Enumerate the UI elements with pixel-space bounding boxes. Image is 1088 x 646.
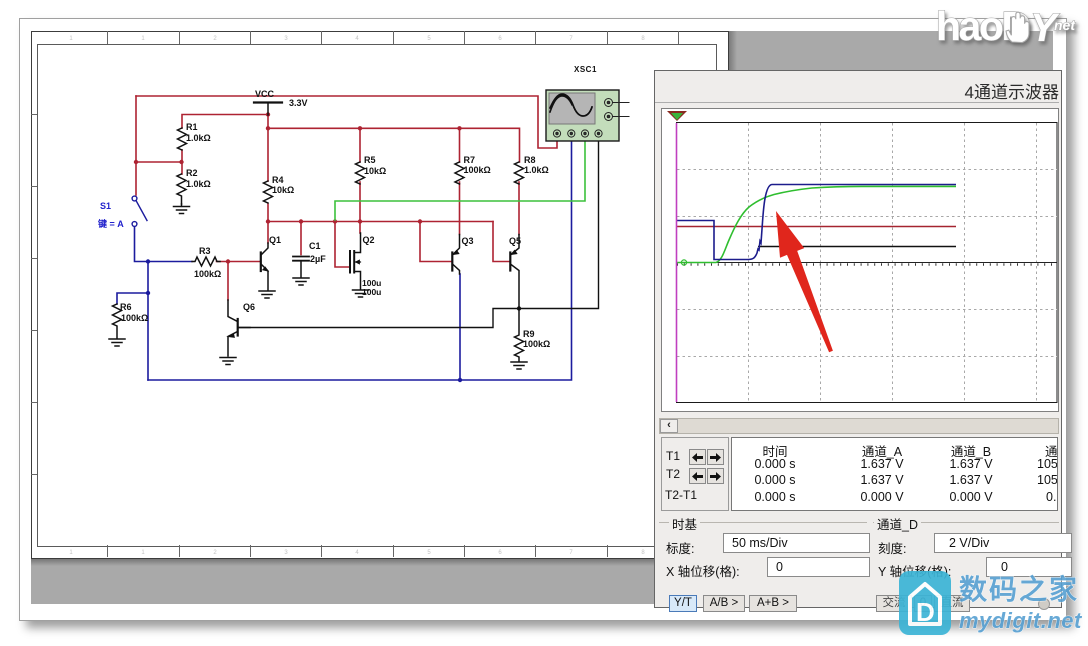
svg-text:R5: R5 [364, 155, 376, 165]
ground under Q6 [220, 358, 236, 365]
svg-text:R2: R2 [186, 168, 198, 178]
component labels [120, 89, 550, 349]
trigger cursor (purple) [676, 123, 678, 402]
transistor Q2 (NMOS) [350, 233, 361, 289]
transistor Q3 (PNP) [452, 235, 459, 275]
resistor R2 [177, 174, 186, 204]
wire rail to R1/R2 junction [136, 161, 182, 163]
wire R5 bottom / Q2 drain [359, 182, 361, 233]
svg-text:R9: R9 [523, 329, 535, 339]
right band ticks [715, 115, 727, 475]
resistor R7 [455, 162, 464, 184]
trace start marker [681, 260, 686, 265]
group 通道_D [874, 514, 921, 533]
svg-text:C1: C1 [309, 241, 321, 251]
svg-text:R7: R7 [464, 155, 476, 165]
resistor R8 [515, 162, 524, 184]
wire R5 top [359, 128, 361, 162]
wire R7 bottom / Q3 emitter [459, 182, 461, 235]
wire Q3 base drop [420, 222, 452, 262]
grid dashed verticals [749, 123, 1037, 402]
wire Q5 base drop [493, 222, 510, 262]
svg-text:VCC: VCC [255, 89, 275, 99]
svg-text:键 = A: 键 = A [97, 218, 124, 229]
top band ticks [108, 31, 679, 44]
capacitor C1 [293, 257, 309, 278]
wire VCC stem to R4 [267, 115, 269, 181]
svg-text:100kΩ: 100kΩ [523, 339, 550, 349]
schematic sheet frame + ruler bands [31, 31, 729, 559]
resistor R9 [515, 309, 524, 362]
wire VCC top rail to scope A [136, 96, 557, 148]
gray workspace below page [31, 564, 1053, 604]
svg-text:Q2: Q2 [363, 235, 375, 245]
trace channel C (blue step) [677, 185, 956, 260]
gray workspace right of page [729, 31, 1053, 604]
wire Q3 collector to bus [459, 274, 461, 380]
svg-text:100kΩ: 100kΩ [194, 269, 221, 279]
wire R8 bottom / Q5 emitter [518, 182, 520, 235]
wire black scope D to Q6 base net [238, 137, 599, 328]
red annotation arrow [754, 195, 854, 365]
trace channel D (black) [758, 246, 956, 248]
ground under C1 [293, 278, 309, 285]
trace channel A (green exponential) [677, 186, 956, 262]
time axis with ticks [677, 262, 1057, 264]
wire R1 bottom to junction to R2 top [181, 150, 183, 174]
svg-text:Q6: Q6 [243, 302, 255, 312]
svg-text:数码之家: 数码之家 [959, 573, 1079, 605]
ground under R9 [511, 362, 527, 369]
svg-text:mydigit.net: mydigit.net [959, 608, 1083, 633]
T cursor readout box [661, 437, 729, 511]
page shadow on gray: bottom [31, 558, 736, 566]
trace channel B (red) [677, 226, 956, 228]
resistor R4 [264, 181, 273, 203]
oscilloscope instrument icon XSC1 [546, 65, 629, 141]
readout table [731, 437, 1058, 511]
svg-text:S1: S1 [100, 201, 111, 211]
resistor R1 [178, 128, 187, 150]
svg-text:10kΩ: 10kΩ [364, 166, 386, 176]
svg-text:3.3V: 3.3V [289, 98, 308, 108]
grid box [677, 123, 1058, 403]
wire main output bus [268, 221, 493, 223]
watermark mydigit (bottom right) [893, 566, 1088, 641]
components: black symbols [109, 103, 527, 370]
svg-text:D: D [916, 597, 935, 627]
wire R4 bottom / Q1 collector [267, 204, 269, 243]
bottom band ticks [108, 545, 679, 557]
resistor R5 [356, 162, 365, 184]
svg-text:R4: R4 [272, 175, 284, 185]
transistor Q1 (NPN) [261, 243, 268, 290]
wire green scope C to gate node [335, 137, 585, 220]
grid dashed horizontals [677, 170, 1057, 357]
svg-text:R1: R1 [186, 122, 198, 132]
svg-text:1.0kΩ: 1.0kΩ [186, 179, 211, 189]
resistor R3 (horizontal) [192, 257, 220, 266]
wire R7 top [459, 128, 461, 162]
trigger handle [667, 111, 687, 121]
ground under Q1 [259, 291, 275, 298]
junction dots (blue) [146, 259, 462, 382]
wire VCC right rail [268, 128, 520, 162]
label Q2 W/L 100u 100u [362, 278, 381, 297]
junction dots (red) [134, 112, 462, 263]
svg-text:Q3: Q3 [462, 236, 474, 246]
svg-text:Q5: Q5 [509, 236, 521, 246]
svg-text:2µF: 2µF [310, 254, 326, 264]
ground under Q2 [353, 290, 369, 297]
bottom controls [655, 512, 1061, 611]
label S1 / key=A (blue) [97, 201, 124, 229]
watermark haoDIY.net (top right) [900, 0, 1088, 62]
svg-text:XSC1: XSC1 [574, 65, 597, 74]
resistor R6 [113, 304, 122, 338]
svg-text:R3: R3 [199, 246, 211, 256]
svg-text:net: net [1054, 17, 1076, 33]
left band ticks [31, 115, 37, 475]
window title [965, 78, 1059, 103]
SCOPE WINDOW [654, 70, 1062, 608]
transistor Q6 (NPN mirrored) [228, 300, 250, 356]
SCHEMATIC SVG [0, 0, 740, 600]
svg-text:R8: R8 [524, 155, 536, 165]
svg-text:1.0kΩ: 1.0kΩ [524, 165, 549, 175]
VCC symbol [254, 103, 282, 116]
wire bottom bus to scope B [148, 137, 572, 380]
svg-text:100kΩ: 100kΩ [121, 313, 148, 323]
ground under R6 [109, 339, 125, 346]
svg-text:100kΩ: 100kΩ [464, 165, 491, 175]
wire R3 node to Q6 collector [227, 262, 229, 301]
plot panel [661, 108, 1059, 412]
junction dot (black) [517, 306, 521, 310]
ground under R2 [174, 204, 190, 214]
wire C1 top [300, 222, 302, 255]
svg-text:Q1: Q1 [269, 235, 281, 245]
wire Q2 gate tap [335, 222, 350, 268]
transistor Q5 (PNP) [510, 235, 519, 309]
svg-text:100u: 100u [362, 287, 381, 297]
svg-text:10kΩ: 10kΩ [272, 185, 294, 195]
wire switch bottom to R3 [135, 227, 193, 262]
svg-text:1.0kΩ: 1.0kΩ [186, 133, 211, 143]
wire left rail down to switch [135, 96, 137, 195]
page shadow on gray: right [729, 31, 737, 564]
wire R3 out to Q1 base [217, 261, 261, 263]
svg-text:R6: R6 [120, 302, 132, 312]
switch S1 [132, 196, 147, 226]
scrollbar [659, 418, 1059, 434]
wire node down to bottom bus [147, 262, 149, 381]
wire R6 branch [117, 293, 148, 304]
group 时基 [669, 514, 700, 533]
wire VCC left branch [182, 115, 268, 129]
